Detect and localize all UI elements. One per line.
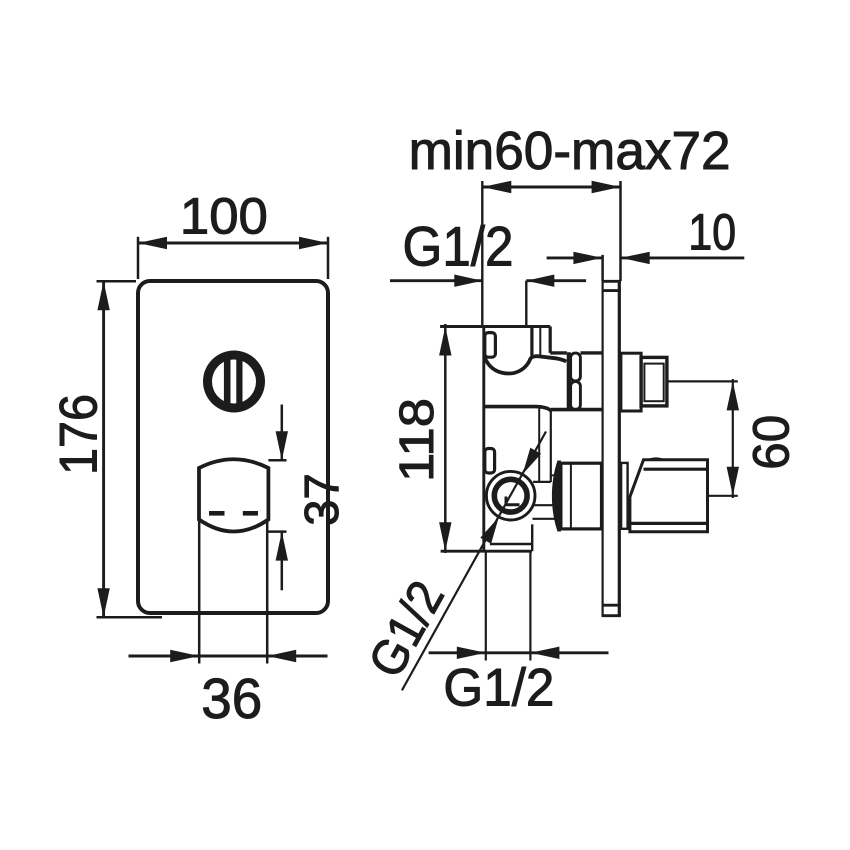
dim 37: arrowhead up — [276, 532, 288, 561]
dim 100: arrowhead right — [299, 237, 328, 249]
side port leader arrowhead upper — [523, 448, 542, 475]
dim 37: dimension line upper tail — [281, 405, 284, 461]
wall plate top edge — [602, 280, 621, 283]
top union hex cap bar — [567, 352, 571, 411]
dim G1/2 bottom: dimension line — [429, 651, 609, 654]
valve body top edge (also 118 extension) — [440, 325, 550, 328]
lower port tube upper tick — [551, 474, 556, 476]
side port inner notch — [506, 497, 520, 505]
side port outer circle — [486, 471, 535, 520]
handle dash right — [243, 511, 258, 516]
valve body left edge — [482, 327, 485, 552]
svg-text:G1/2: G1/2 — [403, 216, 514, 278]
dim 36: extension line left — [198, 519, 201, 664]
spout outlet block bottom face line — [630, 522, 708, 525]
spout outlet block — [630, 460, 708, 532]
top union bottom edge — [551, 408, 602, 412]
wall plate left line — [601, 281, 603, 616]
shower outlet thread inner — [644, 364, 663, 402]
dim 37: extension line bottom — [268, 530, 286, 533]
svg-text:118: 118 — [391, 398, 444, 482]
dim 37: extension line top — [268, 459, 286, 462]
dim 176: extension line top — [97, 280, 137, 283]
dim G1/2 bottom: extension line left — [485, 551, 487, 660]
mid body shoulder line — [484, 407, 551, 411]
dim min60-max72: arrowhead left — [482, 181, 511, 193]
svg-text:10: 10 — [688, 203, 736, 260]
lever handle outline — [199, 459, 268, 531]
dim G1/2 top: arrowhead left-pointing — [526, 275, 554, 287]
dim G1/2 top: arrowhead right-pointing — [454, 275, 482, 287]
top inlet pipe right edge — [525, 281, 527, 327]
wall plate bottom edge — [602, 614, 621, 617]
dim 10: arrowhead left-pointing — [621, 252, 650, 264]
valve body bottom edge (also 118 extension) — [441, 550, 532, 553]
dim 176: arrowhead top — [97, 281, 109, 310]
dim min60-max72: dimension line — [482, 186, 620, 189]
retaining clip lower — [485, 449, 495, 474]
knob slot bar left — [224, 353, 231, 410]
dim 37: dimension line lower tail — [281, 532, 284, 591]
dim G1/2 bottom: extension line right — [529, 551, 531, 660]
ledge above ball housing — [533, 481, 551, 483]
side port leader line — [402, 432, 546, 691]
dim G1/2 bottom: arrowhead right-pointing — [457, 647, 486, 659]
bottom union inner vertical — [570, 463, 572, 529]
wall plate top inner line — [602, 289, 621, 292]
spout outlet block top face line — [644, 468, 708, 471]
dim 36: dimension line — [129, 655, 328, 658]
retaining clip upper — [485, 333, 496, 358]
dim min60-max72: right extension line — [619, 181, 622, 281]
spout outlet collar — [621, 463, 628, 529]
dim 60: bottom extension line — [708, 495, 738, 497]
dim 60: top extension line — [667, 380, 738, 382]
dim 176: arrowhead bottom — [97, 588, 109, 617]
dim 100: arrowhead left — [138, 237, 167, 249]
step block vertical a — [530, 327, 533, 358]
dim 10: left extension line above plate — [601, 255, 604, 281]
svg-text:60: 60 — [743, 415, 800, 470]
svg-text:176: 176 — [50, 394, 109, 475]
lower port tube top line — [533, 504, 555, 506]
dim 100: dimension line — [138, 242, 328, 245]
dim 60: arrowhead down — [727, 467, 739, 496]
dim 100: extension line left — [137, 237, 140, 279]
handle dash left — [209, 511, 225, 516]
wall plate right line — [618, 281, 621, 616]
shower outlet thread — [641, 357, 667, 406]
dim G1/2 top: left tail — [390, 279, 482, 282]
dim 36: extension line right — [266, 519, 269, 664]
side port thick ring — [494, 479, 527, 512]
top union hex barrel upper — [571, 353, 581, 381]
knob slot bar right — [236, 353, 242, 410]
top union tube top edge — [550, 351, 567, 354]
dim G1/2 top: right tail — [526, 279, 586, 282]
cartridge edge vertical — [538, 407, 540, 482]
dim 60: arrowhead up — [727, 381, 739, 410]
lower port tube bottom line — [533, 518, 555, 520]
top inlet pipe left edge / extension line — [481, 181, 483, 327]
dim 60: dimension line — [732, 379, 734, 498]
dim 118: arrowhead up — [439, 327, 451, 356]
side port leader arrowhead lower — [480, 517, 499, 544]
spout outlet block top arc sliver — [647, 457, 665, 459]
dim 10: left tail — [547, 256, 603, 259]
top union tube top edge right of hex — [581, 351, 602, 354]
dim 118: arrowhead down — [439, 522, 451, 551]
svg-text:G1/2: G1/2 — [443, 659, 554, 718]
shower outlet block — [621, 353, 641, 411]
dim min60-max72: arrowhead right — [592, 181, 621, 193]
front plate (rounded rectangle, left view) — [138, 281, 328, 613]
bottom union body — [561, 463, 602, 529]
dim 36: arrowhead right — [267, 650, 296, 662]
dim 100: extension line right — [327, 237, 330, 279]
dim 176: extension line bottom — [97, 616, 163, 619]
wall plate bottom inner line — [602, 604, 621, 607]
svg-text:100: 100 — [180, 188, 268, 245]
svg-text:36: 36 — [201, 667, 262, 730]
diverter knob inner face — [212, 360, 256, 404]
dim 118: dimension line — [444, 324, 447, 553]
body saddle dip curve — [485, 356, 567, 373]
step block vertical c — [549, 327, 552, 353]
dim 176: dimension line — [102, 281, 105, 617]
bottom union cap lens — [552, 461, 561, 532]
svg-text:37: 37 — [295, 473, 349, 526]
dim 37: arrowhead down — [276, 431, 288, 460]
svg-text:min60-max72: min60-max72 — [409, 122, 731, 181]
body bottom step vertical — [531, 524, 533, 551]
step block vertical b — [539, 327, 541, 357]
body bottom step line — [490, 543, 533, 545]
top union hex barrel lower — [571, 382, 581, 410]
diverter knob outer disc — [203, 351, 265, 413]
dim 36: arrowhead left — [170, 650, 199, 662]
dim G1/2 bottom: arrowhead left-pointing — [530, 647, 559, 659]
svg-text:G1/2: G1/2 — [358, 572, 455, 687]
dim 10: arrowhead right-pointing — [573, 252, 602, 264]
body right edge between unions — [550, 411, 552, 482]
dim 10: right tail — [621, 256, 745, 259]
